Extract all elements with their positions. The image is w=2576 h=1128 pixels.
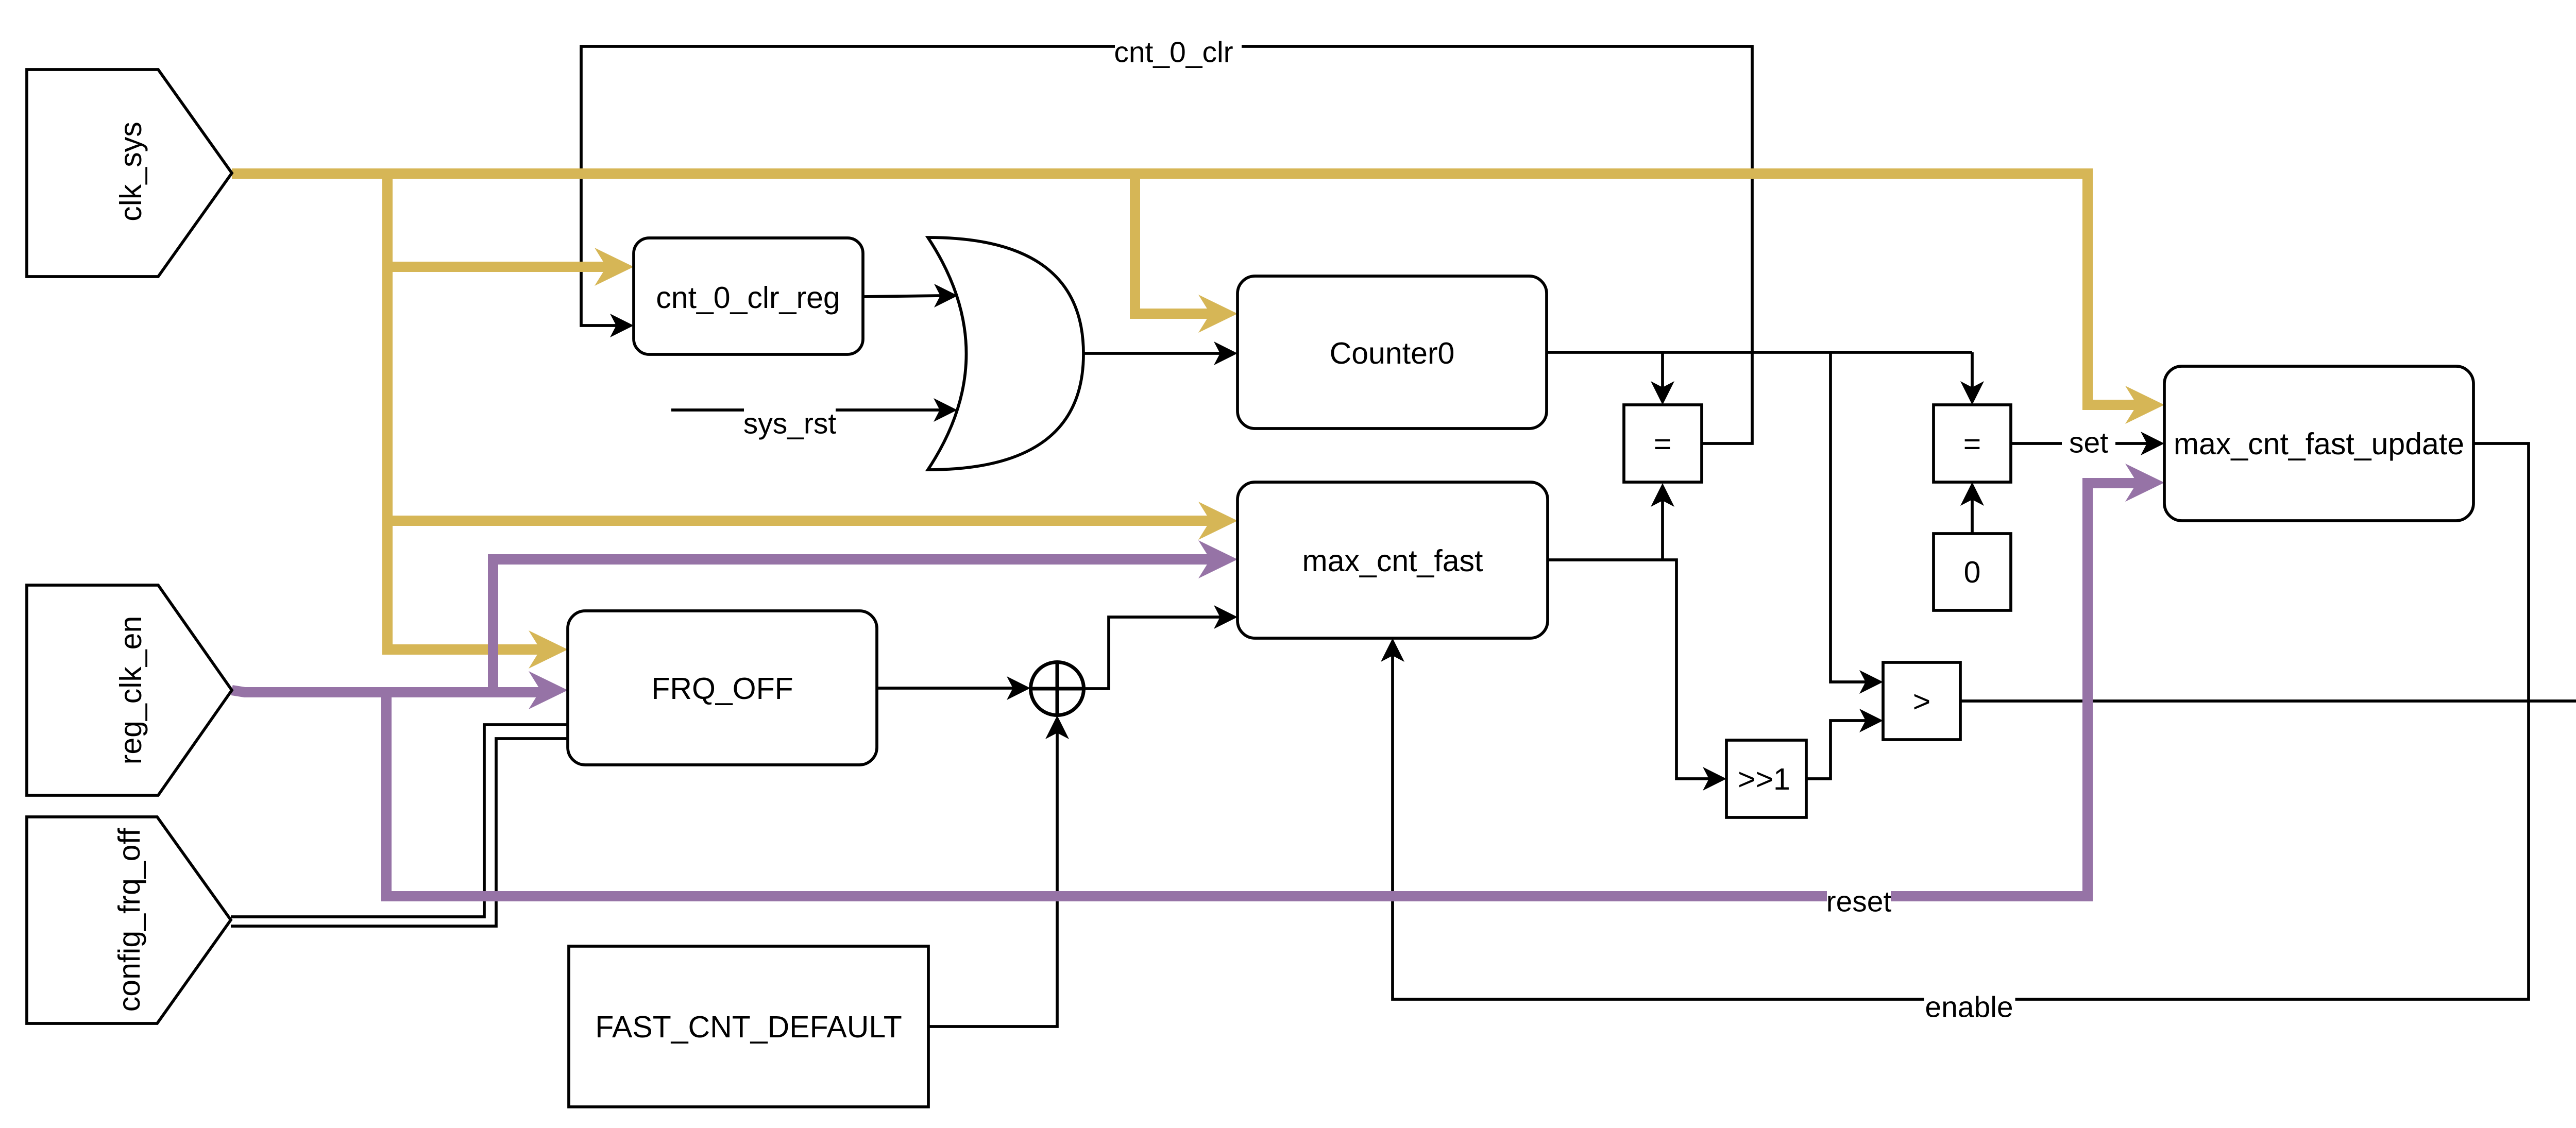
wire FAST_CNT_DEFAULT output to adder bottom input: [928, 733, 1057, 1027]
input port config_frq_off: [27, 817, 231, 1023]
svg-text:reset: reset: [1826, 885, 1892, 918]
wire adder output to max_cnt_fast input: [1083, 617, 1221, 689]
comparator eq2 =: [1934, 405, 2011, 482]
svg-text:cnt_0_clr: cnt_0_clr: [1114, 36, 1233, 69]
comparator GT &gt;: [1883, 662, 1960, 740]
svg-text:FRQ_OFF: FRQ_OFF: [651, 672, 793, 706]
block Counter0: [1238, 276, 1547, 429]
wire constant 0 to eq2 bottom input: [1971, 499, 1974, 534]
register max_cnt_fast_update: [2164, 366, 2473, 521]
register FRQ_OFF: [568, 611, 877, 765]
wire clk_sys branch to max_cnt_fast (yellow): [387, 516, 1212, 526]
wire config_frq_off bus line B: [231, 739, 568, 926]
wire FRQ_OFF output to adder: [877, 687, 1014, 690]
wire clk_sys branch vertical to FRQ_OFF (yellow): [387, 174, 542, 650]
wire clk_sys branch to Counter0 (yellow): [1135, 174, 1212, 314]
wire cnt_0_clr_reg output to OR gate input 1: [863, 296, 941, 297]
wire sys_rst to OR gate input 2: [671, 408, 940, 412]
OR gate U1: [928, 237, 1083, 470]
input port clk_sys: [27, 70, 232, 277]
wire config_frq_off bus line A: [231, 725, 568, 917]
svg-text:cnt_0_clr_reg: cnt_0_clr_reg: [656, 281, 840, 315]
wire branch Counter0 to eq1 top input: [1661, 352, 1664, 388]
constant 0: [1934, 534, 2011, 610]
wire clk_sys branch to cnt_0_clr_reg (yellow): [387, 262, 608, 272]
svg-text:Counter0: Counter0: [1330, 336, 1455, 370]
register cnt_0_clr_reg: [634, 238, 863, 354]
constant FAST_CNT_DEFAULT: [569, 946, 928, 1107]
wire enable (max_cnt_fast_update output to max_cnt_fast bottom): [1393, 443, 2529, 999]
svg-text:=: =: [1963, 427, 1981, 461]
wire branch Counter0 to comparator GT top input: [1831, 352, 1866, 682]
svg-text:>>1: >>1: [1738, 762, 1790, 796]
svg-text:set: set: [2069, 426, 2108, 459]
svg-text:clk_sys: clk_sys: [114, 122, 148, 221]
wire comparator GT output to CLK30KHZ port: [1960, 699, 2576, 703]
wire set (eq2 output to max_cnt_fast_update): [2011, 442, 2148, 445]
svg-text:0: 0: [1964, 555, 1981, 589]
shifter SHR1 &gt;&gt;1: [1726, 740, 1806, 817]
svg-text:FAST_CNT_DEFAULT: FAST_CNT_DEFAULT: [595, 1010, 902, 1044]
wire branch max_cnt_fast output to eq1 bottom input: [1661, 501, 1664, 560]
wire OR gate output to Counter0: [1083, 352, 1221, 355]
wire SHR1 output to comparator GT bottom input: [1806, 721, 1866, 779]
svg-text:config_frq_off: config_frq_off: [112, 828, 146, 1012]
wire Counter0 output bus: [1547, 351, 1972, 354]
svg-text:=: =: [1654, 427, 1671, 461]
input port reg_clk_en: [27, 585, 232, 795]
adder (circle-plus): [1031, 662, 1084, 715]
svg-text:enable: enable: [1925, 991, 2013, 1024]
svg-text:max_cnt_fast: max_cnt_fast: [1302, 544, 1483, 578]
wire reg_clk_en to FRQ_OFF (purple): [232, 690, 542, 692]
wire branch Counter0 to eq2 top input: [1971, 352, 1974, 388]
wire reset (reg_clk_en branch to max_cnt_fast_update, purple): [386, 483, 2139, 896]
svg-text:max_cnt_fast_update: max_cnt_fast_update: [2174, 427, 2464, 461]
svg-text:reg_clk_en: reg_clk_en: [114, 616, 148, 765]
wire cnt_0_clr feedback (eq1 output to cnt_0_clr_reg input): [581, 46, 1752, 443]
wire reg_clk_en branch to max_cnt_fast (purple): [493, 559, 1212, 692]
comparator eq1 =: [1624, 405, 1702, 482]
svg-text:>: >: [1913, 685, 1930, 719]
wire max_cnt_fast output to shifter SHR1: [1548, 560, 1710, 779]
svg-text:sys_rst: sys_rst: [743, 407, 837, 440]
wire clk_sys trunk to max_cnt_fast_update (yellow): [232, 174, 2139, 405]
register max_cnt_fast: [1238, 482, 1548, 638]
